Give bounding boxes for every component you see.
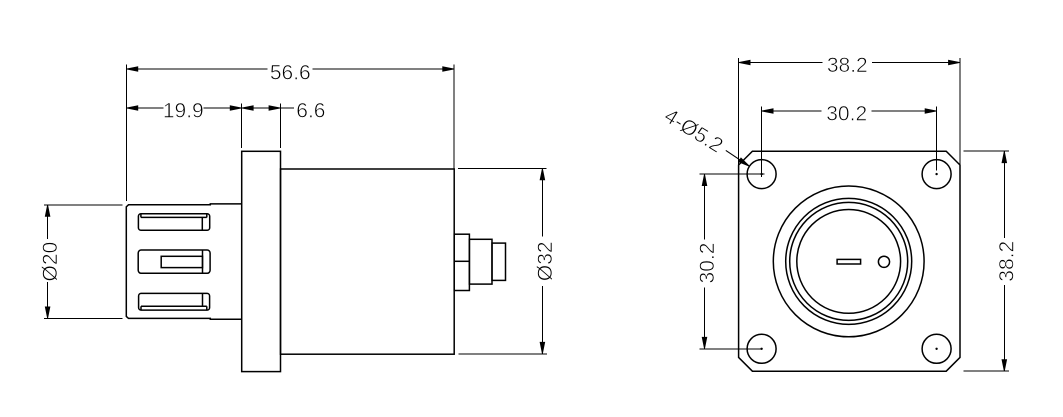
svg-text:6.6: 6.6	[296, 99, 325, 122]
svg-text:30.2: 30.2	[826, 102, 867, 125]
svg-text:30.2: 30.2	[696, 243, 719, 284]
svg-text:Ø32: Ø32	[534, 241, 557, 281]
svg-text:19.9: 19.9	[163, 99, 204, 122]
svg-text:38.2: 38.2	[827, 54, 868, 77]
svg-text:56.6: 56.6	[270, 61, 311, 84]
svg-text:38.2: 38.2	[996, 241, 1019, 282]
svg-text:Ø20: Ø20	[39, 242, 62, 282]
